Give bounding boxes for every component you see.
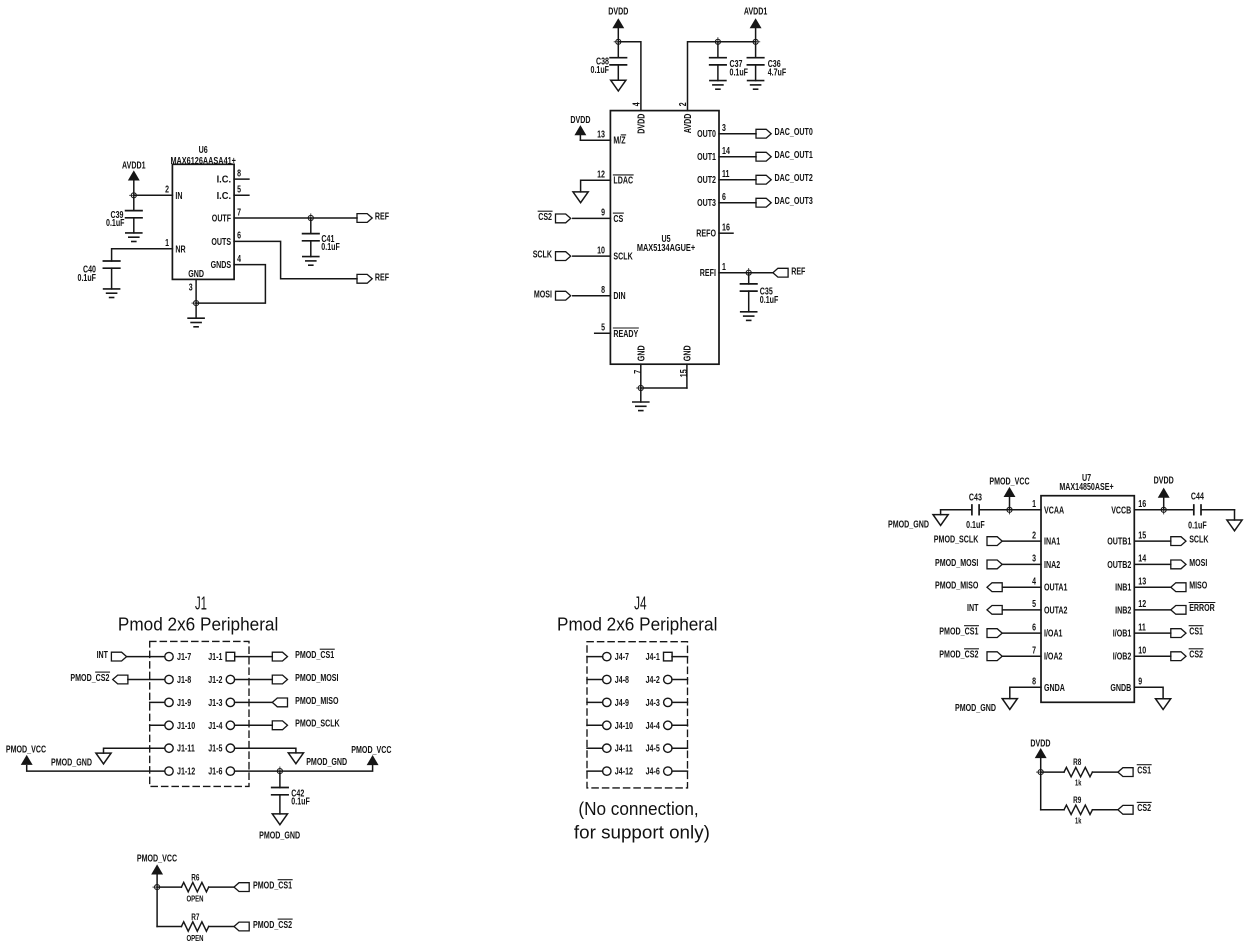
svg-text:J4-8: J4-8 [615,675,630,686]
svg-text:OUTB2: OUTB2 [1107,560,1131,571]
svg-text:PMOD_VCC: PMOD_VCC [137,853,177,864]
svg-text:2: 2 [1032,530,1036,541]
svg-text:AVDD1: AVDD1 [744,7,768,18]
svg-text:MAX14850ASE+: MAX14850ASE+ [1059,482,1113,493]
svg-text:DAC_OUT1: DAC_OUT1 [775,150,814,161]
svg-text:7: 7 [633,370,644,374]
svg-text:PMOD_CS1: PMOD_CS1 [939,627,978,638]
svg-text:OUTA1: OUTA1 [1044,583,1068,594]
svg-text:J4-11: J4-11 [615,744,633,755]
svg-text:15: 15 [679,369,690,377]
svg-text:9: 9 [601,208,605,219]
svg-text:J1-3: J1-3 [208,698,223,709]
svg-text:PMOD_CS1: PMOD_CS1 [295,650,334,661]
svg-text:AVDD: AVDD [683,114,694,134]
svg-text:MOSI: MOSI [1189,558,1207,569]
svg-text:9: 9 [1138,677,1142,688]
svg-text:13: 13 [597,130,605,141]
svg-text:REFO: REFO [696,229,716,240]
svg-text:PMOD_CS1: PMOD_CS1 [253,881,292,892]
svg-text:J1-6: J1-6 [208,767,223,778]
svg-text:GNDA: GNDA [1044,683,1065,694]
svg-text:R7: R7 [191,912,199,922]
svg-text:CS2: CS2 [538,212,552,223]
svg-text:AVDD1: AVDD1 [122,160,146,171]
svg-text:DAC_OUT2: DAC_OUT2 [775,173,814,184]
svg-text:PMOD_SCLK: PMOD_SCLK [934,535,979,546]
svg-text:PMOD_GND: PMOD_GND [259,831,300,842]
svg-text:J4-9: J4-9 [615,698,630,709]
svg-text:GND: GND [636,345,647,361]
svg-text:12: 12 [597,170,605,181]
svg-text:J4-5: J4-5 [646,744,661,755]
svg-text:J4-3: J4-3 [646,698,661,709]
svg-text:DVDD: DVDD [608,7,628,18]
svg-text:CS: CS [613,214,623,225]
svg-text:1k: 1k [1075,779,1082,788]
svg-text:U6: U6 [199,145,208,156]
svg-text:J1-4: J1-4 [208,721,223,732]
svg-text:OUTF: OUTF [212,214,231,225]
svg-text:OPEN: OPEN [186,933,203,943]
svg-text:Pmod 2x6 Peripheral: Pmod 2x6 Peripheral [557,614,717,634]
svg-text:REF: REF [791,266,805,277]
svg-text:0.1uF: 0.1uF [591,65,610,76]
svg-text:OUTS: OUTS [211,237,231,248]
svg-text:SCLK: SCLK [613,252,633,263]
svg-text:PMOD_MISO: PMOD_MISO [935,581,979,592]
svg-text:4: 4 [237,254,241,265]
svg-text:I/OA1: I/OA1 [1044,629,1063,640]
svg-text:MISO: MISO [1189,581,1207,592]
svg-text:CS2: CS2 [1189,650,1203,661]
svg-text:J1-7: J1-7 [177,652,192,663]
svg-text:10: 10 [1138,646,1146,657]
svg-text:0.1uF: 0.1uF [78,273,97,284]
svg-text:PMOD_GND: PMOD_GND [51,757,92,768]
svg-text:4: 4 [631,102,642,106]
svg-text:NR: NR [175,244,186,255]
svg-text:0.1uF: 0.1uF [730,67,749,78]
svg-text:GND: GND [188,269,204,280]
svg-text:J4-7: J4-7 [615,652,630,663]
svg-text:5: 5 [601,323,605,334]
svg-text:OUT0: OUT0 [697,129,716,140]
svg-text:DVDD: DVDD [1154,475,1174,486]
svg-text:for support only): for support only) [574,823,710,843]
svg-text:IN: IN [175,191,182,202]
svg-text:4.7uF: 4.7uF [768,67,787,78]
svg-text:I/OB2: I/OB2 [1113,652,1132,663]
svg-text:CS2: CS2 [1137,803,1151,814]
svg-text:J4-12: J4-12 [615,767,634,778]
svg-text:VCCB: VCCB [1111,505,1131,516]
svg-text:J1: J1 [195,593,207,613]
svg-text:PMOD_CS2: PMOD_CS2 [253,920,292,931]
svg-text:GNDS: GNDS [211,260,232,271]
svg-text:J4-10: J4-10 [615,721,634,732]
svg-text:0.1uF: 0.1uF [106,218,125,229]
svg-text:8: 8 [1032,677,1036,688]
svg-text:I/OB1: I/OB1 [1113,629,1132,640]
svg-text:0.1uF: 0.1uF [1188,521,1207,532]
svg-text:6: 6 [1032,622,1036,633]
svg-text:INB1: INB1 [1115,583,1132,594]
svg-text:PMOD_VCC: PMOD_VCC [989,477,1029,488]
svg-text:12: 12 [1138,599,1146,610]
svg-text:OPEN: OPEN [186,894,203,904]
svg-text:REF: REF [375,212,389,223]
svg-text:PMOD_SCLK: PMOD_SCLK [295,719,340,730]
svg-text:OUT1: OUT1 [697,152,716,163]
svg-text:13: 13 [1138,577,1146,588]
svg-text:READY: READY [613,329,638,340]
svg-text:PMOD_VCC: PMOD_VCC [351,745,391,756]
svg-text:PMOD_MOSI: PMOD_MOSI [935,558,979,569]
svg-text:PMOD_GND: PMOD_GND [888,519,929,530]
svg-text:6: 6 [237,231,241,242]
svg-text:7: 7 [1032,646,1036,657]
svg-text:3: 3 [189,283,193,294]
svg-text:LDAC: LDAC [613,176,633,187]
svg-text:C43: C43 [969,492,982,503]
svg-text:15: 15 [1138,530,1146,541]
svg-text:6: 6 [722,192,726,203]
svg-text:Pmod 2x6 Peripheral: Pmod 2x6 Peripheral [118,614,278,634]
svg-text:16: 16 [722,223,730,234]
svg-text:(No connection,: (No connection, [578,799,698,819]
svg-text:J4-6: J4-6 [646,767,661,778]
svg-text:14: 14 [1138,554,1146,565]
svg-text:GNDB: GNDB [1110,683,1131,694]
svg-text:0.1uF: 0.1uF [966,520,985,531]
svg-text:INT: INT [967,603,978,614]
svg-text:J1-5: J1-5 [208,744,223,755]
svg-text:J1-2: J1-2 [208,675,223,686]
svg-text:PMOD_VCC: PMOD_VCC [6,745,46,756]
svg-text:PMOD_MOSI: PMOD_MOSI [295,673,339,684]
svg-text:INT: INT [97,650,108,661]
svg-text:DAC_OUT0: DAC_OUT0 [775,127,814,138]
svg-text:16: 16 [1138,499,1146,510]
svg-text:J1-8: J1-8 [177,675,192,686]
svg-text:1k: 1k [1075,816,1082,825]
svg-text:11: 11 [1138,622,1146,633]
svg-text:J4-2: J4-2 [646,675,661,686]
svg-text:DAC_OUT3: DAC_OUT3 [775,196,814,207]
svg-text:PMOD_GND: PMOD_GND [955,703,996,714]
svg-text:R9: R9 [1073,795,1081,805]
svg-text:0.1uF: 0.1uF [291,797,310,808]
svg-text:C44: C44 [1191,491,1204,502]
svg-text:PMOD_CS2: PMOD_CS2 [70,673,109,684]
svg-text:REFI: REFI [700,268,716,279]
svg-text:GND: GND [682,345,693,361]
svg-text:R8: R8 [1073,757,1081,767]
svg-text:OUTB1: OUTB1 [1107,537,1131,548]
svg-text:PMOD_MISO: PMOD_MISO [295,696,339,707]
svg-text:PMOD_GND: PMOD_GND [306,757,347,768]
svg-text:3: 3 [1032,554,1036,565]
svg-text:DIN: DIN [613,291,625,302]
svg-text:J1-12: J1-12 [177,767,196,778]
svg-text:J4-1: J4-1 [646,652,661,663]
svg-text:0.1uF: 0.1uF [760,295,779,306]
svg-text:REF: REF [375,272,389,283]
svg-text:1: 1 [1032,499,1036,510]
svg-text:OUTA2: OUTA2 [1044,605,1068,616]
svg-text:M/Z: M/Z [613,136,625,147]
svg-text:5: 5 [237,185,241,196]
svg-text:1: 1 [165,238,169,249]
svg-text:CS1: CS1 [1189,627,1203,638]
svg-text:2: 2 [678,102,689,106]
svg-text:PMOD_CS2: PMOD_CS2 [939,650,978,661]
svg-text:INA2: INA2 [1044,560,1061,571]
svg-text:J4: J4 [634,593,647,613]
svg-text:SCLK: SCLK [1189,535,1209,546]
svg-text:INB2: INB2 [1115,605,1132,616]
svg-text:J1-1: J1-1 [208,652,223,663]
svg-text:INA1: INA1 [1044,537,1061,548]
svg-text:SCLK: SCLK [533,250,553,261]
svg-text:10: 10 [597,245,605,256]
svg-text:3: 3 [722,123,726,134]
svg-text:8: 8 [601,285,605,296]
svg-text:ERROR: ERROR [1189,603,1215,614]
svg-text:0.1uF: 0.1uF [321,242,340,253]
svg-text:I.C.: I.C. [217,175,232,186]
svg-text:OUT2: OUT2 [697,175,716,186]
svg-text:R6: R6 [191,873,199,883]
svg-text:J1-11: J1-11 [177,744,195,755]
svg-text:OUT3: OUT3 [697,198,716,209]
svg-text:11: 11 [722,169,730,180]
svg-text:5: 5 [1032,599,1036,610]
svg-text:VCAA: VCAA [1044,505,1064,516]
svg-text:J1-10: J1-10 [177,721,196,732]
svg-text:MAX6126AASA41+: MAX6126AASA41+ [170,156,236,167]
svg-text:4: 4 [1032,577,1036,588]
svg-text:J1-9: J1-9 [177,698,192,709]
svg-text:J4-4: J4-4 [646,721,661,732]
svg-text:DVDD: DVDD [636,114,647,134]
svg-text:7: 7 [237,207,241,218]
svg-text:DVDD: DVDD [570,115,590,126]
svg-text:1: 1 [722,262,726,273]
svg-text:I.C.: I.C. [217,191,232,202]
svg-text:14: 14 [722,146,730,157]
svg-text:8: 8 [237,168,241,179]
svg-text:CS1: CS1 [1137,766,1151,777]
svg-text:2: 2 [165,185,169,196]
svg-text:MAX5134AGUE+: MAX5134AGUE+ [637,243,695,254]
svg-text:MOSI: MOSI [534,289,552,300]
svg-text:DVDD: DVDD [1030,739,1050,750]
svg-text:I/OA2: I/OA2 [1044,652,1063,663]
